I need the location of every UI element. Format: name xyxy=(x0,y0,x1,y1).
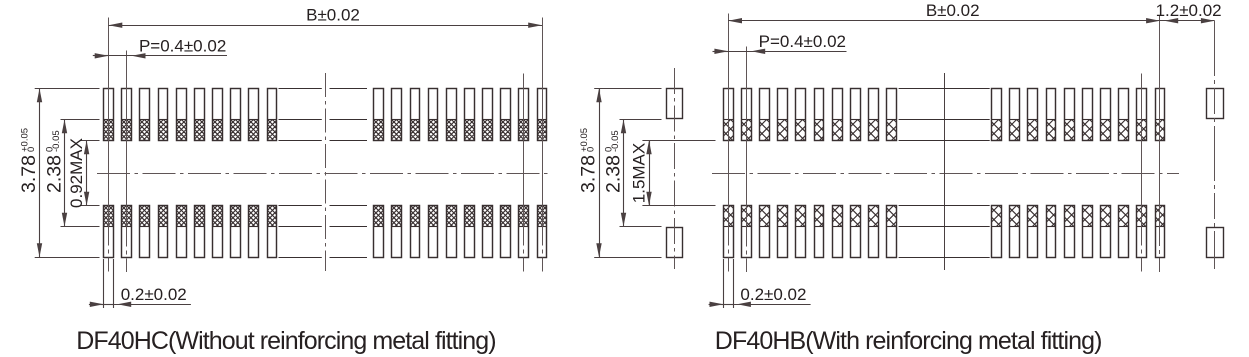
DF40HB middle vertical centerline xyxy=(944,73,946,270)
svg-text:3.78: 3.78 xyxy=(578,155,600,193)
DF40HC horizontal centerline xyxy=(97,173,552,175)
DF40HB horizontal centerline xyxy=(712,173,1179,175)
svg-text:2.38: 2.38 xyxy=(602,155,624,193)
DF40HB top pad row xyxy=(724,89,734,141)
svg-text:P=0.4±0.02: P=0.4±0.02 xyxy=(139,37,226,56)
svg-text:0.2±0.02: 0.2±0.02 xyxy=(740,285,806,304)
break lines middle gap DF40HC xyxy=(279,88,322,90)
DF40HC middle vertical centerline xyxy=(325,73,327,271)
svg-text:1.5MAX: 1.5MAX xyxy=(629,143,648,203)
dimension 3.78 DF40HC xyxy=(39,89,41,258)
DF40HC bottom pad row xyxy=(104,206,114,258)
dimension 2.38 DF40HB xyxy=(623,120,625,227)
DF40HB bottom pad row xyxy=(724,206,734,258)
svg-text:B±0.02: B±0.02 xyxy=(926,1,980,20)
dimension 0.2±0.02 DF40HC xyxy=(103,259,105,308)
DF40HC top pad row xyxy=(104,89,114,141)
svg-text:DF40HB(With reinforcing metal: DF40HB(With reinforcing metal fitting) xyxy=(715,327,1102,355)
DF40HB metal fitting pads xyxy=(667,89,683,119)
svg-text:B±0.02: B±0.02 xyxy=(306,6,360,25)
dimension 0.92MAX DF40HC xyxy=(86,141,88,206)
svg-text:2.38: 2.38 xyxy=(43,155,65,193)
dimension 2.38 DF40HC xyxy=(64,120,66,227)
break lines middle gap DF40HB xyxy=(899,88,990,90)
svg-text:0.92MAX: 0.92MAX xyxy=(67,138,86,208)
dimension 1.2±0.02 DF40HB xyxy=(1160,20,1215,22)
pad centerlines DF40HB xyxy=(728,14,730,273)
svg-text:DF40HC(Without reinforcing met: DF40HC(Without reinforcing metal fitting… xyxy=(76,327,495,355)
dimension B±0.02 DF40HB xyxy=(728,20,1160,22)
svg-text:1.2±0.02: 1.2±0.02 xyxy=(1156,1,1222,20)
dimension 0.2±0.02 DF40HB xyxy=(723,259,725,308)
dimension P=0.4±0.02 DF40HB xyxy=(713,51,729,53)
dimension B±0.02 DF40HC xyxy=(109,25,543,27)
svg-text:0.2±0.02: 0.2±0.02 xyxy=(121,285,187,304)
dimension P=0.4±0.02 DF40HC xyxy=(93,55,109,57)
svg-text:3.78: 3.78 xyxy=(18,155,40,193)
svg-text:P=0.4±0.02: P=0.4±0.02 xyxy=(759,32,846,51)
dimension 1.5MAX DF40HB xyxy=(649,141,651,206)
pad centerlines DF40HC xyxy=(108,18,110,273)
dimension 3.78 DF40HB xyxy=(599,89,601,258)
fitting pad centerlines xyxy=(674,68,676,269)
